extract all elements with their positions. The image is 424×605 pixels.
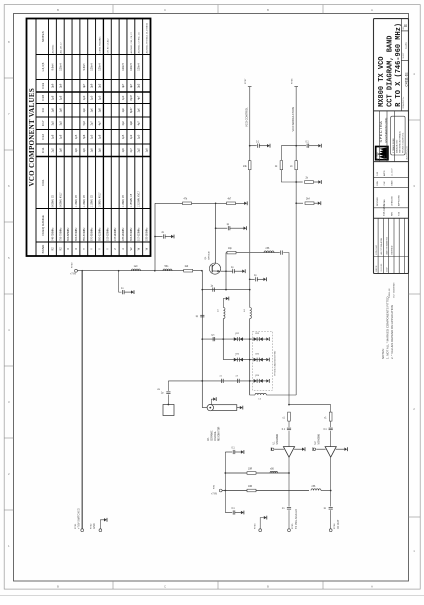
resistor R2 47k xyxy=(183,202,192,205)
inductor L6 output xyxy=(264,251,274,253)
svg-text:PHONE (619)248 2911: PHONE (619)248 2911 xyxy=(403,132,405,153)
resistor R1 base feed xyxy=(184,269,193,272)
wire row1 right xyxy=(254,338,266,340)
wire supply bottom stub xyxy=(225,512,232,514)
pin +7.6V input xyxy=(75,269,78,272)
node tank inductor tap xyxy=(222,338,224,340)
signature table xyxy=(374,111,409,208)
capacitor C5 coupling xyxy=(281,251,283,255)
svg-text:120nH: 120nH xyxy=(91,63,94,71)
svg-text:1p5: 1p5 xyxy=(122,134,125,139)
node buffer1 feed xyxy=(288,404,290,406)
svg-text:21.10.99: 21.10.99 xyxy=(381,263,383,272)
ground GND pin xyxy=(104,518,107,522)
svg-text:8p47: 8p47 xyxy=(130,107,133,113)
svg-text:DRAWING No.: DRAWING No. xyxy=(402,96,405,108)
svg-text:3p3: 3p3 xyxy=(51,121,54,126)
notes text xyxy=(381,297,394,359)
wire varactor row3 xyxy=(168,380,253,382)
svg-text:2p2: 2p2 xyxy=(138,148,141,153)
svg-text:CCT DIAGRAM: CCT DIAGRAM xyxy=(393,283,396,298)
wire L3 vertical xyxy=(222,319,224,340)
svg-text:R: R xyxy=(67,248,70,250)
svg-text:C: C xyxy=(164,8,166,12)
pin RT64 RF out xyxy=(329,529,332,532)
svg-text:FREQ RANGE: FREQ RANGE xyxy=(41,215,45,235)
svg-text:REV E: REV E xyxy=(376,265,378,272)
svg-text:+7.6V: +7.6V xyxy=(211,494,218,496)
svg-text:DRN: DRN xyxy=(377,181,379,186)
svg-text:CCT DIAGRAM, BAND: CCT DIAGRAM, BAND xyxy=(387,35,395,106)
wire mod parallel branch xyxy=(281,146,296,182)
svg-text:1p5: 1p5 xyxy=(146,148,149,153)
wire buffer supply column xyxy=(224,452,226,513)
capacitor C3 1p xyxy=(228,226,230,230)
svg-text:1p0: 1p0 xyxy=(122,95,125,100)
svg-text:1p8: 1p8 xyxy=(59,95,62,100)
svg-text:APPD: APPD xyxy=(383,170,386,176)
capacitor C10 0.1u xyxy=(258,144,260,148)
svg-text:REVISED: REVISED xyxy=(392,245,394,254)
title block xyxy=(374,19,409,274)
svg-text:9.6nH: 9.6nH xyxy=(83,63,86,70)
pin VCO modulation input xyxy=(294,86,298,88)
capacitor C23 output 1n xyxy=(287,508,291,510)
svg-text:C6-: C6- xyxy=(208,437,210,441)
logo text SPECTRA ENGINEERING xyxy=(378,118,388,143)
node +7.6V switched tap xyxy=(81,270,83,272)
wire feedback stub xyxy=(216,227,228,229)
svg-text:3p3: 3p3 xyxy=(99,83,102,88)
svg-text:1p8: 1p8 xyxy=(51,95,54,100)
dashed select box xyxy=(253,331,273,390)
svg-text:ACN 063 pty.Ltd: ACN 063 pty.Ltd xyxy=(405,146,408,159)
svg-text:2. * VALUES DEPEND ON APPLICA: 2. * VALUES DEPEND ON APPLICATION xyxy=(390,305,394,359)
svg-text:1p0: 1p0 xyxy=(91,108,94,113)
svg-text:1.15SMV, C5: 1.15SMV, C5 xyxy=(131,193,133,207)
wire supply top stub xyxy=(225,451,232,453)
inductor L4 choke xyxy=(250,308,252,319)
wire emitter row xyxy=(221,270,233,272)
ground C2 xyxy=(171,235,174,239)
svg-text:G.W: G.W xyxy=(377,172,379,176)
svg-text:120nH: 120nH xyxy=(99,63,102,71)
svg-text:935-960MHz: 935-960MHz xyxy=(147,227,149,241)
svg-text:4p7: 4p7 xyxy=(122,83,125,88)
svg-text:MSA0886: MSA0886 xyxy=(318,433,321,444)
svg-text:1p5: 1p5 xyxy=(91,148,94,153)
svg-text:917-933MHz: 917-933MHz xyxy=(139,227,141,241)
svg-text:1p0: 1p0 xyxy=(122,108,125,113)
svg-text:1p0: 1p0 xyxy=(83,108,86,113)
svg-text:C: C xyxy=(164,585,166,589)
svg-text:806-825MHz: 806-825MHz xyxy=(68,227,70,241)
wire varactor feed bottom xyxy=(250,381,297,395)
svg-text:5p6: 5p6 xyxy=(83,134,86,139)
Spectra Engineering logo xyxy=(376,147,388,160)
wire row3 right xyxy=(254,380,266,382)
ground row3 xyxy=(266,379,269,383)
svg-text:120nH: 120nH xyxy=(138,63,141,71)
svg-text:2p2: 2p2 xyxy=(51,148,54,153)
svg-text:ADD 746 BAND R2: ADD 746 BAND R2 xyxy=(385,236,388,254)
svg-text:RT63: RT63 xyxy=(254,523,256,529)
node feedback tap xyxy=(215,227,217,229)
text below title block xyxy=(389,283,396,298)
wire bias column left xyxy=(154,203,156,270)
ground C4 xyxy=(242,269,245,273)
wire varactor row2 xyxy=(223,359,253,361)
svg-text:+7.6V SWITCHED: +7.6V SWITCHED xyxy=(78,508,81,529)
zone dividers right xyxy=(409,120,421,517)
svg-text:1.1SMV, C5: 1.1SMV, C5 xyxy=(76,194,78,207)
wire R9 to ground xyxy=(314,202,318,204)
svg-text:4p7: 4p7 xyxy=(138,121,141,126)
ground C1 xyxy=(131,290,134,294)
svg-text:C17: C17 xyxy=(41,120,45,126)
wire buffer1 output xyxy=(288,457,290,529)
wire decoupling stub xyxy=(119,271,122,292)
resonator body xyxy=(207,404,237,410)
wire VB branch xyxy=(167,381,169,405)
svg-text:NOTES:: NOTES: xyxy=(381,348,385,359)
ground C14 xyxy=(318,144,321,148)
varactor CR2 row1 xyxy=(234,337,243,341)
svg-text:R: R xyxy=(75,248,78,250)
svg-text:U: U xyxy=(122,248,125,250)
wire buffer2 column xyxy=(330,405,332,447)
wire U2 right lead xyxy=(336,448,345,450)
svg-text:E: E xyxy=(403,24,408,27)
wire mod shunt stub 2 xyxy=(296,202,303,204)
wire output corner to buffers xyxy=(283,253,289,405)
svg-text:APPROVED: APPROVED xyxy=(398,194,401,206)
svg-text:915-940MHz: 915-940MHz xyxy=(115,227,117,241)
svg-text:AL2500C: AL2500C xyxy=(51,44,54,53)
node modulation divider xyxy=(295,181,297,183)
svg-text:5p3: 5p3 xyxy=(83,121,86,126)
pin RT61 +7.6V switched xyxy=(81,529,84,532)
resistor R11 bias2 xyxy=(247,489,256,492)
transistor Q1 BFG540 xyxy=(209,263,220,274)
svg-text:AL2500C, R7900C1 45-4758K21: AL2500C, R7900C1 45-4758K21 xyxy=(146,22,149,53)
svg-text:1.1SMV, C5: 1.1SMV, C5 xyxy=(84,194,86,207)
ground RT63 xyxy=(264,516,267,520)
node bias divider xyxy=(215,202,217,204)
svg-text:A: A xyxy=(371,8,373,12)
svg-text:1p2: 1p2 xyxy=(130,134,133,139)
resistor R10 bias1 xyxy=(247,472,256,475)
logo address box xyxy=(391,116,405,155)
svg-text:SPECTRA: SPECTRA xyxy=(378,121,383,143)
svg-text:GRN: GRN xyxy=(384,155,386,160)
node bias1 join xyxy=(288,472,290,474)
wire resonator right xyxy=(237,407,240,409)
pin VCO control input xyxy=(248,86,252,88)
ground U1 right xyxy=(302,447,305,451)
ground C3 xyxy=(244,226,247,230)
ground C20 xyxy=(241,450,244,454)
varactor CR6 row3 xyxy=(254,379,263,383)
wire row 289 to control bus xyxy=(202,289,249,291)
svg-text:B: B xyxy=(267,8,269,12)
node emitter join row289 xyxy=(225,289,227,291)
svg-text:1p0: 1p0 xyxy=(138,134,141,139)
svg-text:1p8: 1p8 xyxy=(51,108,54,113)
ground C10 xyxy=(267,144,270,148)
svg-text:3p9: 3p9 xyxy=(91,83,94,88)
svg-text:1p8: 1p8 xyxy=(99,108,102,113)
node modulation decoupling xyxy=(295,145,297,147)
svg-text:RT6/31 UNLESS NOTED: RT6/31 UNLESS NOTED xyxy=(274,350,276,375)
node decoupling tap xyxy=(118,270,120,272)
svg-text:MX800 TX VCO: MX800 TX VCO xyxy=(378,56,386,106)
wire row2 right xyxy=(254,359,266,361)
capacitor C1 1n xyxy=(123,290,125,294)
pin RT62 GND xyxy=(99,529,102,532)
svg-text:1.1SMV, C5: 1.1SMV, C5 xyxy=(92,194,94,207)
svg-text:935-960MHz: 935-960MHz xyxy=(123,227,125,241)
wire U1 right lead xyxy=(294,448,302,450)
svg-text:C4R51, R6100MX: C4R51, R6100MX xyxy=(100,36,102,53)
scan edge line bottom xyxy=(0,595,424,597)
node bias2 join xyxy=(330,490,332,492)
resistor R9 shunt 2 xyxy=(305,202,314,205)
svg-text:C11: C11 xyxy=(41,147,45,153)
svg-text:VCO MODULATION: VCO MODULATION xyxy=(291,107,295,131)
wire bias top row xyxy=(155,202,245,204)
svg-text:2p7: 2p7 xyxy=(130,148,133,153)
node control lowpass xyxy=(249,278,251,280)
svg-text:120nH: 120nH xyxy=(59,63,62,71)
wire divider vertical xyxy=(215,203,217,263)
svg-text:4p7: 4p7 xyxy=(130,83,133,88)
ground bias row xyxy=(244,201,247,205)
ground resonator stub xyxy=(213,397,216,401)
svg-text:ENGINEERING (WA): ENGINEERING (WA) xyxy=(384,118,388,143)
capacitor C25 output 1n xyxy=(329,508,333,510)
svg-text:756-776MHz: 756-776MHz xyxy=(60,227,62,241)
capacitor VB series xyxy=(166,392,170,394)
inductor L8 bias2 xyxy=(311,489,321,491)
amplifier U2 MSA0886 xyxy=(325,447,336,458)
svg-text:VCO COMPONENT VALUES: VCO COMPONENT VALUES xyxy=(28,88,36,187)
wire +7.6V switched rail xyxy=(81,271,83,529)
wire U2 left lead xyxy=(316,448,325,450)
svg-text:850-870MHz: 850-870MHz xyxy=(84,227,86,241)
node feedback row289 xyxy=(201,289,203,291)
svg-text:1.21SMV, KV17: 1.21SMV, KV17 xyxy=(139,190,141,207)
inductor L7 bias1 xyxy=(270,471,278,473)
svg-text:1p5: 1p5 xyxy=(99,148,102,153)
resistor R13 buffer2 xyxy=(329,412,332,421)
svg-text:1p0: 1p0 xyxy=(99,95,102,100)
svg-text:REVISED: REVISED xyxy=(377,197,379,206)
svg-text:L3,4,5: L3,4,5 xyxy=(41,62,45,71)
svg-text:RT62: RT62 xyxy=(90,523,92,529)
svg-text:1p0: 1p0 xyxy=(83,95,86,100)
svg-text:915-935MHz: 915-935MHz xyxy=(107,227,109,241)
svg-text:3p9: 3p9 xyxy=(59,83,62,88)
node row2 feed xyxy=(249,359,251,361)
svg-text:NOTES: NOTES xyxy=(41,31,45,42)
svg-text:+7.6V: +7.6V xyxy=(70,274,77,276)
svg-text:VCO CONTROL: VCO CONTROL xyxy=(245,107,249,127)
ground C21 xyxy=(241,511,244,515)
wire resonator left xyxy=(202,407,207,409)
wire VCO modulation bus xyxy=(295,87,297,396)
svg-text:RT65: RT65 xyxy=(292,523,294,529)
title text MX800 TX VCO xyxy=(378,23,403,107)
wire bypass stub xyxy=(155,236,163,238)
svg-text:SHEET: SHEET xyxy=(403,52,405,59)
varactor CR3 row1 xyxy=(254,337,263,341)
svg-text:RESONATOR: RESONATOR xyxy=(218,426,221,441)
svg-text:MALAGA 6090: MALAGA 6090 xyxy=(395,139,398,153)
svg-text:RT61: RT61 xyxy=(75,523,77,529)
svg-text:RT64: RT64 xyxy=(334,523,336,529)
ground L3 xyxy=(226,297,229,301)
svg-text:CR, R7, C5 AL2: CR, R7, C5 AL2 xyxy=(106,38,109,54)
svg-text:TX5 REVS: TX5 REVS xyxy=(383,204,386,216)
resistor R7 series xyxy=(295,161,298,170)
svg-text:120nH: 120nH xyxy=(122,63,125,71)
capacitor C4 1p emitter xyxy=(233,269,235,273)
svg-text:TX PRE-SCALER: TX PRE-SCALER xyxy=(295,509,298,529)
amplifier U1 MSA0886 xyxy=(283,447,294,458)
capacitor C2 2n xyxy=(164,234,166,238)
port VB box xyxy=(163,405,174,416)
svg-text:120nH: 120nH xyxy=(130,63,133,71)
svg-text:RT67: RT67 xyxy=(245,78,247,84)
ground C13 xyxy=(263,277,266,281)
svg-text:1p5: 1p5 xyxy=(91,134,94,139)
svg-text:A4 CCT DIA RT6B: A4 CCT DIA RT6B xyxy=(380,237,383,254)
zone dividers top xyxy=(113,5,323,14)
svg-text:AL2500C, C7 R6C, C5: AL2500C, C7 R6C, C5 xyxy=(138,31,141,53)
svg-text:DATE: DATE xyxy=(390,180,393,186)
svg-text:A: A xyxy=(371,585,373,589)
ground U1 left xyxy=(271,447,274,451)
node base xyxy=(201,270,203,272)
node row1 feed xyxy=(249,338,251,340)
svg-text:GND: GND xyxy=(93,523,96,529)
node row3 feed xyxy=(249,380,251,382)
pin +7.6V buffers xyxy=(219,489,222,492)
ground row2 xyxy=(266,358,269,362)
wire varactor row1 xyxy=(202,338,253,340)
wire VCO control bus xyxy=(249,87,251,308)
ground resonator right xyxy=(240,406,243,410)
zone numerals left xyxy=(8,40,10,548)
wire R8 to ground xyxy=(314,181,319,183)
wire U1 left lead xyxy=(275,448,284,450)
capacitor C14 0.1u xyxy=(307,144,309,148)
node bypass tap xyxy=(154,236,156,238)
zone letters top xyxy=(57,8,373,12)
svg-text:RT66: RT66 xyxy=(292,78,294,84)
node control decoupling xyxy=(249,145,251,147)
zone letters bottom xyxy=(57,585,373,589)
wire control lowpass stub xyxy=(250,278,255,280)
wire emitter output vertical xyxy=(225,253,227,290)
svg-text:1p0: 1p0 xyxy=(138,108,141,113)
node supply row1 xyxy=(224,472,226,474)
svg-text:2p2: 2p2 xyxy=(122,121,125,126)
svg-text:WESTERN AUSTRALIA: WESTERN AUSTRALIA xyxy=(399,131,402,153)
zone numerals right xyxy=(413,72,415,553)
node modulation shunt 2 xyxy=(295,202,297,204)
svg-text:AL2500C, C61, C8, C7: AL2500C, C61, C8, C7 xyxy=(130,31,133,53)
svg-text:ECN 1044: ECN 1044 xyxy=(376,244,378,254)
resistor R8 shunt xyxy=(305,181,314,184)
wire row1 to row2 link xyxy=(222,339,224,360)
capacitor C13 1p xyxy=(256,277,258,281)
capacitor C22 buffer1 input xyxy=(288,421,290,447)
wire L3 to ground xyxy=(223,299,226,308)
node control to tank xyxy=(249,289,251,291)
svg-text:10R: 10R xyxy=(248,486,253,488)
node row3 left xyxy=(201,380,203,382)
svg-text:ALL CR, C7: ALL CR, C7 xyxy=(59,41,62,53)
svg-text:1p5: 1p5 xyxy=(122,148,125,153)
capacitor C24 buffer2 input xyxy=(329,428,333,430)
wire control decoupling stub xyxy=(250,145,257,147)
svg-text:CHANGED: CHANGED xyxy=(390,195,393,206)
svg-text:C9: C9 xyxy=(41,108,45,112)
svg-text:B: B xyxy=(267,585,269,589)
inductor L2 1u0 xyxy=(131,269,140,271)
svg-text:1 of 1: 1 of 1 xyxy=(404,42,408,49)
svg-text:2p7: 2p7 xyxy=(91,121,94,126)
svg-text:RT60: RT60 xyxy=(72,262,74,268)
ground R8 xyxy=(318,180,321,184)
ground U2 left xyxy=(313,447,316,451)
wire buffer2 output xyxy=(330,457,332,529)
svg-text:RFB: RFB xyxy=(391,211,393,216)
svg-text:BFG540: BFG540 xyxy=(209,251,211,260)
svg-text:C19: C19 xyxy=(41,83,45,89)
capacitor C8 series xyxy=(213,288,215,292)
node supply row2 col xyxy=(224,490,226,492)
svg-text:BAND: BAND xyxy=(41,244,45,253)
wire resonator stub xyxy=(211,399,213,404)
svg-text:1.1SMV, C5: 1.1SMV, C5 xyxy=(123,194,125,207)
svg-text:TGB: TGB xyxy=(399,211,401,216)
svg-text:9/6SMV, C5: 9/6SMV, C5 xyxy=(52,194,54,207)
svg-text:11.10.97: 11.10.97 xyxy=(391,167,393,176)
capacitor C16 series row3 xyxy=(222,379,224,383)
svg-text:1p5: 1p5 xyxy=(83,148,86,153)
svg-text:21.10.99: 21.10.99 xyxy=(377,151,379,160)
component values table xyxy=(27,19,151,257)
wire bias2 to output xyxy=(321,490,331,492)
wire supply row2 xyxy=(222,490,309,492)
inductor L1 56n xyxy=(163,269,172,271)
svg-text:1p8: 1p8 xyxy=(59,148,62,153)
svg-text:C4811-1E: C4811-1E xyxy=(405,72,409,86)
svg-text:9/6SMV, KV17: 9/6SMV, KV17 xyxy=(60,192,62,208)
svg-text:4p7: 4p7 xyxy=(99,121,102,126)
svg-text:3p9: 3p9 xyxy=(51,83,54,88)
svg-text:RF OUT: RF OUT xyxy=(337,519,340,529)
capacitor C21 supply bottom xyxy=(233,510,235,514)
node bias column xyxy=(154,270,156,272)
svg-text:B: B xyxy=(57,585,59,589)
svg-text:10R: 10R xyxy=(248,469,253,471)
svg-text:1p8: 1p8 xyxy=(59,134,62,139)
title block right column xyxy=(401,19,408,111)
